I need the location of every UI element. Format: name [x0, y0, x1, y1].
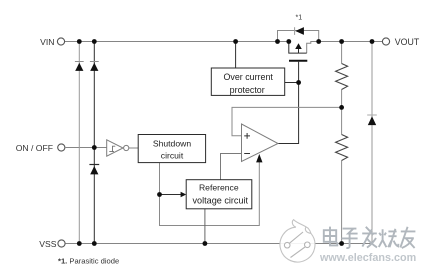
wire reference to VSS [204, 209, 206, 244]
terminal ON/OFF [16, 143, 65, 153]
diode D4 [367, 115, 377, 125]
wire diode branch D2 D3 [93, 42, 95, 244]
junction dot feedback node [339, 105, 344, 110]
wire over current protector drop [235, 42, 237, 69]
junction VSS-reference [203, 241, 208, 246]
wire over current protector to gate [285, 82, 299, 84]
wire shutdown arrow shaft [160, 194, 182, 196]
transistor Q1 PMOS body arrow [295, 43, 302, 53]
svg-text:VOUT: VOUT [395, 37, 420, 47]
terminal VIN [40, 37, 64, 47]
box reference voltage circuit [186, 180, 252, 209]
junction VOUT-divider [339, 39, 344, 44]
junction Q1 source [286, 39, 291, 44]
box shutdown circuit [138, 135, 205, 163]
wire reference to op-amp minus input [221, 154, 242, 180]
diode D3 [89, 165, 99, 175]
svg-text:VSS: VSS [39, 239, 56, 249]
diode D1 [75, 62, 84, 71]
arrowhead into reference box [181, 192, 187, 197]
junction dot shutdown node [157, 192, 162, 197]
svg-text:Reference: Reference [199, 183, 239, 193]
junction VSS-divider [339, 241, 344, 246]
svg-text:*1. Parasitic diode: *1. Parasitic diode [58, 256, 119, 265]
wire op-amp output to gate [278, 62, 299, 144]
resistor R2 [336, 135, 348, 161]
wire output divider [341, 42, 343, 244]
junction dot gate node [296, 80, 301, 85]
wire shutdown to reference and op-amp enable [160, 162, 260, 226]
svg-text:VIN: VIN [40, 37, 54, 47]
wire diode branch D1 [78, 42, 80, 244]
resistor R1 [336, 64, 348, 90]
svg-text:voltage circuit: voltage circuit [192, 196, 248, 206]
junction dot ON/OFF node [92, 145, 97, 150]
wire body diode loop [278, 31, 319, 42]
wire diode branch D4 [371, 42, 373, 244]
transistor Q1 gate bar [289, 60, 307, 62]
svg-text:circuit: circuit [161, 150, 184, 160]
box over current protector [211, 68, 284, 95]
wire VIN rail left [65, 41, 289, 43]
junction VOUT-D4 [370, 39, 375, 44]
svg-text:Shutdown: Shutdown [153, 138, 191, 148]
body diode of MOSFET [295, 27, 304, 35]
op-amp enable arrowhead [256, 154, 262, 162]
wire inverter to shutdown box [129, 147, 138, 149]
junction VIN-bodydiode-left [275, 39, 280, 44]
op-amp U1 error amplifier [242, 124, 279, 162]
svg-text:www.elecfans.com: www.elecfans.com [319, 252, 416, 264]
junction VSS-D1 [77, 241, 82, 246]
watermark logo elecfans [280, 220, 315, 262]
svg-text:ON / OFF: ON / OFF [16, 143, 53, 153]
diode D2 [90, 62, 99, 71]
watermark chinese characters dian zi fa shao you [324, 227, 416, 248]
terminal VSS [39, 239, 65, 249]
junction VIN-OCP [233, 39, 238, 44]
wire ON/OFF input [66, 147, 107, 149]
wire VSS rail [66, 243, 372, 245]
junction VSS-D3 [92, 241, 97, 246]
terminal VOUT [382, 37, 419, 47]
junction VOUT-bodydiode-right [316, 39, 321, 44]
svg-text:*1: *1 [296, 15, 303, 22]
junction VIN-D1 [77, 39, 82, 44]
junction VIN-D2 [92, 39, 97, 44]
wire MOSFET source drain channel [289, 42, 307, 54]
svg-text:Over current: Over current [224, 72, 274, 82]
svg-text:protector: protector [230, 85, 265, 95]
wire feedback to op-amp plus input [232, 107, 342, 135]
inverter schmitt trigger [107, 140, 129, 156]
wire VIN rail right [307, 42, 383, 54]
